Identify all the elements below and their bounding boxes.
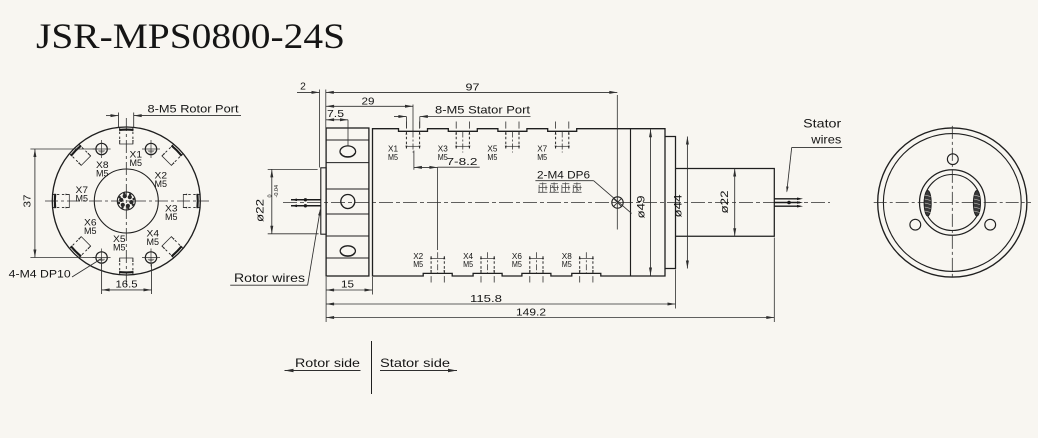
svg-text:M5: M5 bbox=[537, 152, 547, 162]
svg-text:-0.04: -0.04 bbox=[274, 185, 280, 198]
svg-text:8-M5 Stator Port: 8-M5 Stator Port bbox=[435, 105, 530, 117]
svg-text:ø49: ø49 bbox=[636, 196, 648, 219]
svg-text:M5: M5 bbox=[487, 152, 497, 162]
svg-text:7-8.2: 7-8.2 bbox=[447, 157, 478, 168]
svg-text:M5: M5 bbox=[165, 212, 178, 223]
svg-text:wires: wires bbox=[810, 133, 841, 147]
svg-text:Stator: Stator bbox=[803, 117, 841, 131]
svg-text:ø44: ø44 bbox=[673, 195, 685, 218]
svg-text:M5: M5 bbox=[113, 243, 126, 254]
svg-text:M5: M5 bbox=[84, 226, 97, 237]
svg-text:0: 0 bbox=[268, 194, 274, 197]
svg-text:M5: M5 bbox=[512, 259, 522, 269]
svg-text:15: 15 bbox=[341, 280, 354, 291]
svg-text:97: 97 bbox=[466, 82, 480, 93]
svg-text:ø22: ø22 bbox=[719, 191, 731, 214]
svg-text:7.5: 7.5 bbox=[327, 109, 344, 120]
svg-text:Stator side: Stator side bbox=[380, 356, 450, 370]
svg-text:M5: M5 bbox=[388, 152, 398, 162]
svg-text:149.2: 149.2 bbox=[516, 308, 546, 319]
svg-text:M5: M5 bbox=[562, 259, 572, 269]
svg-text:JSR-MPS0800-24S: JSR-MPS0800-24S bbox=[36, 16, 345, 56]
svg-text:2-M4 DP6: 2-M4 DP6 bbox=[537, 170, 590, 182]
svg-text:M5: M5 bbox=[76, 194, 89, 205]
svg-text:M5: M5 bbox=[147, 237, 160, 248]
svg-text:M5: M5 bbox=[413, 259, 423, 269]
svg-text:Rotor side: Rotor side bbox=[295, 356, 360, 370]
svg-text:37: 37 bbox=[23, 194, 34, 207]
svg-text:M5: M5 bbox=[130, 158, 143, 169]
svg-text:4-M4 DP10: 4-M4 DP10 bbox=[9, 269, 71, 281]
svg-text:16.5: 16.5 bbox=[116, 280, 138, 291]
svg-text:2: 2 bbox=[300, 82, 306, 93]
svg-text:M5: M5 bbox=[155, 179, 168, 190]
svg-text:29: 29 bbox=[362, 96, 375, 107]
svg-text:M5: M5 bbox=[463, 259, 473, 269]
svg-text:115.8: 115.8 bbox=[470, 294, 502, 305]
svg-text:Rotor wires: Rotor wires bbox=[234, 271, 305, 285]
svg-text:8-M5 Rotor Port: 8-M5 Rotor Port bbox=[148, 104, 239, 116]
svg-text:M5: M5 bbox=[96, 169, 109, 180]
svg-text:ø22: ø22 bbox=[255, 199, 267, 222]
